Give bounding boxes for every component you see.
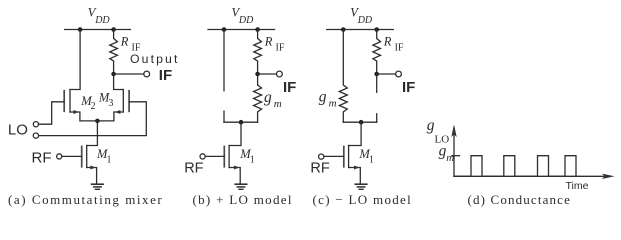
svg-text:g: g bbox=[319, 88, 327, 105]
transistor M3 (a) : drain wire from IF node, channel, gate bar bbox=[114, 74, 130, 112]
source wire M1 with arrow (c) bbox=[349, 166, 361, 184]
node IF dot (a) bbox=[111, 72, 116, 77]
source wire M3 with arrow (a) bbox=[97, 110, 123, 121]
label M1 (b) bbox=[239, 147, 255, 166]
wire IF node to terminal (c) bbox=[377, 73, 396, 75]
svg-text:(d) Conductance: (d) Conductance bbox=[468, 192, 572, 207]
label gm (b) bbox=[264, 89, 282, 110]
svg-text:m: m bbox=[446, 152, 454, 164]
svg-text:IF: IF bbox=[395, 43, 404, 54]
junction dot VDD-right (b) bbox=[255, 27, 260, 32]
wire left rail to M2 drain (a) bbox=[70, 30, 80, 90]
source wire M1 with arrow (a) bbox=[87, 166, 97, 184]
svg-text:IF: IF bbox=[283, 79, 296, 96]
wire node to M1 drain (c) bbox=[349, 122, 362, 145]
transistor M1 channel and gate bar (c) bbox=[344, 146, 349, 168]
svg-text:RF: RF bbox=[32, 150, 52, 167]
wire IF node to terminal (b) bbox=[258, 73, 277, 75]
svg-text:LO: LO bbox=[8, 122, 28, 139]
svg-text:R: R bbox=[120, 34, 129, 48]
transistor M2 (a) : drain wire from rail, channel, gate bar bbox=[64, 90, 70, 113]
label M2 (a) bbox=[80, 94, 95, 112]
junction dot VDD-left (a) bbox=[78, 27, 83, 32]
wire VDD bar (a) bbox=[65, 29, 131, 31]
svg-text:R: R bbox=[383, 34, 392, 48]
source wire M2 with arrow (a) bbox=[70, 110, 97, 121]
svg-text:(c) − LO model: (c) − LO model bbox=[313, 192, 413, 207]
terminal circle LO- (a) bbox=[33, 133, 38, 138]
node source-join dot (a) bbox=[95, 119, 100, 124]
transistor M1 channel and gate bar (b) bbox=[224, 146, 229, 168]
junction dot VDD-left (c) bbox=[341, 27, 346, 32]
wire IF stub lower segment (c) bbox=[376, 114, 378, 122]
label gm (c) bbox=[319, 88, 337, 109]
terminal circle RF (c) bbox=[319, 154, 324, 159]
label M1 (a) bbox=[96, 147, 112, 166]
resistor RIF (a) bbox=[110, 30, 118, 75]
terminal circle IF (c) bbox=[396, 71, 402, 77]
ground symbol (c) bbox=[355, 184, 367, 189]
terminal circle LO+ (a) bbox=[33, 122, 38, 127]
resistor gm on left rail (c) bbox=[339, 30, 347, 123]
svg-text:1: 1 bbox=[369, 155, 374, 166]
node M1 drain dot (b) bbox=[239, 120, 244, 125]
svg-text:RF: RF bbox=[184, 160, 203, 176]
label M1 (c) bbox=[358, 147, 374, 166]
svg-text:2: 2 bbox=[91, 101, 96, 112]
svg-text:g: g bbox=[264, 89, 272, 106]
terminal circle RF (a) bbox=[57, 154, 62, 159]
wire LO- to M3 gate (a) bbox=[39, 102, 147, 136]
ground symbol (a) bbox=[92, 184, 104, 189]
svg-text:DD: DD bbox=[357, 15, 373, 26]
node IF dot (c) bbox=[374, 72, 379, 77]
label RIF (a) bbox=[120, 34, 141, 53]
svg-text:Output: Output bbox=[130, 52, 180, 66]
svg-text:RF: RF bbox=[310, 160, 329, 176]
wire drain node horizontal (c) bbox=[343, 121, 376, 123]
label RIF (b) bbox=[264, 34, 285, 53]
net VDD label (b) bbox=[232, 6, 255, 27]
svg-text:(a) Commutating mixer: (a) Commutating mixer bbox=[8, 192, 163, 207]
svg-text:IF: IF bbox=[276, 43, 285, 54]
label gLO (d) bbox=[427, 117, 449, 145]
wire drain node horizontal (b) bbox=[224, 121, 258, 123]
terminal circle RF (b) bbox=[200, 154, 205, 159]
svg-text:IF: IF bbox=[402, 79, 415, 96]
wire RF to M1 gate (a) bbox=[62, 155, 82, 157]
terminal circle IF (b) bbox=[277, 71, 283, 77]
wire left rail upper segment, open switch (b) bbox=[223, 30, 225, 91]
terminal circle IF (a) bbox=[144, 71, 150, 77]
junction dot VDD-left (b) bbox=[222, 27, 227, 32]
tick gm level (d) bbox=[452, 155, 460, 157]
wire RF to M1 gate (c) bbox=[324, 155, 344, 157]
svg-text:1: 1 bbox=[250, 155, 255, 166]
wire node to M1 drain (a) bbox=[87, 121, 98, 146]
svg-text:3: 3 bbox=[108, 98, 113, 109]
net VDD label (c) bbox=[350, 6, 373, 27]
axis vertical with arrow (d) bbox=[451, 125, 456, 177]
transistor M1 channel and gate bar (a) bbox=[82, 146, 87, 168]
wire LO+ to M2 gate (a) bbox=[39, 102, 65, 124]
node IF dot (b) bbox=[255, 72, 260, 77]
wire VDD bar (c) bbox=[327, 29, 394, 31]
axis horizontal with arrow (d) bbox=[454, 174, 615, 179]
junction dot VDD-right (c) bbox=[374, 27, 379, 32]
resistor gm (b) bbox=[254, 74, 262, 122]
resistor RIF (b) bbox=[254, 30, 262, 75]
svg-text:(b) + LO model: (b) + LO model bbox=[193, 192, 293, 207]
node M1 drain dot (c) bbox=[359, 120, 364, 125]
label RIF (c) bbox=[383, 34, 404, 53]
wire VDD bar (b) bbox=[208, 29, 275, 31]
svg-text:R: R bbox=[264, 34, 273, 48]
svg-text:IF: IF bbox=[159, 67, 172, 84]
wire left rail lower segment (b) bbox=[223, 111, 225, 122]
label M3 (a) bbox=[98, 91, 114, 110]
ground symbol (b) bbox=[235, 184, 247, 189]
wire IF node to terminal (a) bbox=[114, 73, 144, 75]
svg-text:Time: Time bbox=[566, 180, 589, 192]
resistor RIF (c) bbox=[373, 30, 381, 75]
svg-text:m: m bbox=[274, 98, 282, 110]
net VDD label (a) bbox=[88, 6, 111, 27]
wire IF stub upper segment, open switch (c) bbox=[376, 74, 378, 92]
source wire M1 with arrow (b) bbox=[229, 166, 240, 184]
junction dot VDD-right (a) bbox=[111, 27, 116, 32]
waveform square pulses (d) bbox=[454, 156, 576, 177]
svg-text:DD: DD bbox=[94, 15, 110, 26]
svg-text:1: 1 bbox=[107, 155, 112, 166]
svg-text:m: m bbox=[329, 98, 337, 110]
label gm (d) bbox=[439, 142, 455, 164]
svg-text:g: g bbox=[427, 117, 435, 134]
wire node to M1 drain (b) bbox=[229, 122, 241, 145]
wire RF to M1 gate (b) bbox=[205, 155, 224, 157]
svg-text:DD: DD bbox=[238, 15, 254, 26]
